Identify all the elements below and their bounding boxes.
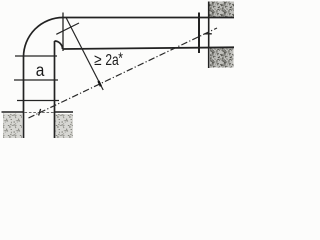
- elbow outer arc: [24, 18, 64, 58]
- wall hatch bottom-middle (right of vertical pipe): [56, 114, 74, 138]
- wall hatch bottom-right of pipe penetration: [210, 48, 234, 68]
- vertical pipe right line: [54, 41, 56, 138]
- dimension oblique tick upper: [56, 23, 79, 34]
- floor line left: [2, 111, 24, 113]
- horizontal pipe top line: [62, 17, 234, 19]
- wall hatch top-right: [210, 2, 235, 19]
- dimension end stroke on centerline: [98, 81, 101, 86]
- floor line hidden behind pipe: [25, 111, 55, 113]
- wall face line right: [208, 2, 210, 69]
- elbow inner arc: [55, 41, 63, 49]
- elbow end tick horizontal: [15, 55, 57, 57]
- elbow end tick vertical: [62, 13, 64, 52]
- centerline crossing tick top: [205, 33, 212, 35]
- svg-text:*: *: [118, 49, 123, 67]
- svg-text:2a: 2a: [105, 50, 118, 68]
- centerline crossing tick bottom: [39, 109, 41, 116]
- horizontal pipe bottom line: [63, 47, 235, 49]
- vertical pipe left line: [23, 57, 25, 138]
- floor line right: [55, 111, 74, 113]
- sleeve tick: [17, 100, 59, 102]
- wall hatch bottom-left: [3, 114, 22, 139]
- svg-text:a: a: [36, 60, 45, 80]
- svg-text:≥: ≥: [94, 52, 101, 69]
- dimension line for 2a: [66, 18, 103, 91]
- wall sleeve line right: [198, 13, 200, 54]
- diagonal centerline: [29, 28, 218, 118]
- dimension tick a lower: [14, 79, 58, 81]
